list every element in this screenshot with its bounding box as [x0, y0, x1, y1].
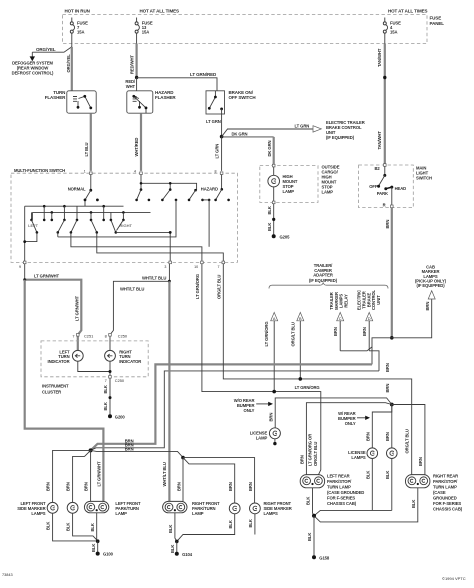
svg-text:LT GRN/ORG: LT GRN/ORG — [295, 385, 320, 390]
svg-text:BRN: BRN — [385, 363, 390, 372]
svg-text:OFF SWITCH: OFF SWITCH — [229, 95, 256, 100]
wire BRN to cab marker lamps — [392, 299, 432, 338]
wire ORG/LT BLU connector B down — [290, 321, 300, 379]
svg-text:ORG/LT BLU: ORG/LT BLU — [290, 322, 295, 346]
note CAB MARKER LAMPS — [415, 265, 447, 288]
svg-text:LAMPS: LAMPS — [351, 455, 365, 460]
instrument cluster box — [41, 341, 148, 377]
svg-text:WHT: WHT — [126, 84, 136, 89]
left front park/turn lamp — [84, 501, 108, 512]
svg-text:7: 7 — [72, 333, 74, 338]
label BRAKE ON/ OFF SWITCH — [229, 90, 256, 100]
note TRAILER/CAMPER ADAPTER — [309, 263, 338, 283]
svg-text:RIGHT: RIGHT — [120, 223, 133, 228]
ground G104 — [175, 552, 193, 557]
svg-text:15A: 15A — [77, 30, 84, 35]
svg-text:BRN: BRN — [248, 482, 253, 491]
svg-text:FLASHER: FLASHER — [155, 95, 176, 100]
svg-text:CHASSIS CAB): CHASSIS CAB) — [433, 507, 463, 512]
svg-text:GROUNDED: GROUNDED — [433, 496, 457, 501]
high mount stop lamp box — [260, 166, 318, 203]
svg-text:15A: 15A — [142, 30, 149, 35]
label LICENSE LAMPS — [348, 450, 366, 460]
wire BLK to G158 — [307, 516, 314, 557]
right front side marker lamp 2 — [250, 503, 261, 514]
wire LT GRN brake switch down — [221, 114, 223, 137]
label MAIN LIGHT SWITCH — [416, 166, 432, 181]
label HIGH MOUNT STOP LAMP — [283, 174, 298, 194]
right turn indicator — [105, 350, 116, 361]
wire BRN to left rear park — [300, 403, 392, 475]
wire BRN to license lamp w/o rear bumper — [268, 398, 391, 428]
note OUTSIDE CARGO/HIGH MOUNT STOP LAMP — [322, 164, 340, 194]
svg-text:HOT IN RUN: HOT IN RUN — [65, 8, 90, 13]
wire BLK right markers ground — [177, 514, 255, 542]
svg-text:(IF EQUIPPED): (IF EQUIPPED) — [309, 278, 338, 283]
svg-text:BLK: BLK — [170, 545, 175, 553]
label ELECTRIC TRAILER BRAKE CONTROL UNIT (vertical) — [357, 289, 381, 310]
svg-text:HOT AT ALL TIMES: HOT AT ALL TIMES — [140, 8, 179, 13]
svg-text:BRN: BRN — [66, 482, 71, 491]
wire BRN to right park/turn lamp — [176, 458, 183, 502]
license lamp w/o bumper — [269, 428, 280, 439]
MFS internal routing wires — [23, 200, 223, 263]
svg-text:(CASE: (CASE — [433, 490, 446, 495]
MFS pin 4 — [134, 170, 142, 175]
svg-text:ORG/LT BLU: ORG/LT BLU — [313, 442, 318, 466]
MFS pin 7 — [218, 261, 225, 269]
svg-text:RED/WHT: RED/WHT — [130, 55, 135, 74]
svg-text:G104: G104 — [182, 552, 193, 557]
fuse F7 15A — [70, 18, 88, 35]
junction on TAN/WHT — [383, 76, 386, 79]
svg-text:LT BLU: LT BLU — [84, 142, 89, 156]
label LEFT TURN INDICATOR — [48, 350, 71, 364]
left front side marker lamp 2 — [67, 502, 78, 513]
ground G100 — [96, 552, 114, 557]
svg-text:10: 10 — [194, 265, 198, 269]
svg-text:B2: B2 — [375, 166, 381, 171]
license lamp B w/ bumper — [387, 448, 398, 459]
svg-text:LT GRN/WHT: LT GRN/WHT — [97, 461, 102, 487]
svg-text:LEFT REAR: LEFT REAR — [327, 474, 350, 479]
left front side marker lamp 1 — [47, 502, 58, 513]
connector arrow electric trailer brake — [313, 126, 321, 132]
svg-text:8: 8 — [215, 170, 217, 174]
svg-text:DK GRN: DK GRN — [232, 131, 248, 136]
label RED/ WHT — [125, 79, 136, 89]
svg-text:TAN/WHT: TAN/WHT — [377, 131, 382, 150]
wire WHT/LT BLU pin 3 branch to cluster — [110, 264, 169, 351]
svg-text:BRN: BRN — [333, 327, 338, 336]
svg-text:HEAD: HEAD — [395, 186, 407, 191]
svg-text:BLK: BLK — [103, 402, 108, 410]
label RIGHT FRONT PARK/TURN LAMP — [192, 501, 220, 516]
svg-text:BRN: BRN — [125, 447, 134, 452]
wire ORG/YEL fuse7 to turn flasher — [66, 33, 72, 91]
svg-text:HAZARD: HAZARD — [201, 186, 218, 191]
wire BLK left marker 1 ground — [46, 513, 98, 541]
wire ORG/YEL branch to defogger — [30, 47, 72, 61]
svg-text:LAMP: LAMP — [192, 511, 204, 516]
svg-text:WHT/LT BLU: WHT/LT BLU — [120, 287, 144, 292]
svg-text:LAMP: LAMP — [283, 189, 295, 194]
label LEFT REAR PARK/STOP/TURN LAMP — [327, 474, 364, 507]
wire LT GRN/ORG connector A down — [264, 321, 274, 392]
svg-text:BRN: BRN — [84, 482, 89, 491]
junction BRN right front — [181, 456, 185, 460]
svg-text:LAMP: LAMP — [322, 189, 334, 194]
junction trailer B tap — [299, 377, 303, 381]
label TRAILER MARKER LAMPS RELAY (vertical) — [329, 292, 348, 310]
pin 8 connector C250 — [105, 333, 128, 338]
license lamp A w/ bumper — [367, 448, 378, 459]
svg-text:7: 7 — [218, 265, 220, 269]
ground G200 — [108, 414, 125, 419]
label LICENSE LAMP — [250, 431, 268, 441]
pin R bottom of light switch — [383, 202, 394, 207]
svg-text:(IF EQUIPPED): (IF EQUIPPED) — [326, 135, 355, 140]
svg-text:PARK/STOP/: PARK/STOP/ — [327, 479, 352, 484]
connector triangle C — [337, 312, 344, 321]
svg-text:LAMPS: LAMPS — [264, 511, 278, 516]
svg-text:BLK: BLK — [66, 523, 71, 531]
svg-text:PANEL: PANEL — [430, 21, 445, 26]
defogger system note — [12, 61, 54, 76]
label LEFT FRONT PARK/TURN LAMP — [115, 501, 141, 516]
label RIGHT TURN INDICATOR — [119, 350, 141, 364]
svg-text:BLK: BLK — [306, 497, 311, 505]
label INSTRUMENT CLUSTER — [42, 383, 69, 394]
pin B2 — [375, 164, 387, 172]
svg-text:DK GRN: DK GRN — [267, 141, 272, 157]
svg-text:A: A — [273, 316, 276, 321]
brake on/off switch — [206, 91, 225, 114]
svg-text:TAN/WHT: TAN/WHT — [377, 48, 382, 67]
svg-text:LT GRN/ORG: LT GRN/ORG — [264, 322, 269, 347]
svg-text:LAMP: LAMP — [256, 436, 268, 441]
wire hazard flasher feed — [136, 78, 138, 91]
svg-text:4: 4 — [134, 170, 136, 174]
svg-text:G200: G200 — [115, 414, 126, 419]
left turn indicator — [72, 350, 83, 361]
wire WHT/RED hazard flasher to MFS pin 4 — [134, 113, 141, 171]
wire BRN main light switch down — [385, 208, 392, 338]
ground G205 — [272, 234, 290, 239]
svg-text:C251: C251 — [84, 333, 93, 338]
wire BRN to left park/turn lamp — [84, 450, 91, 501]
note W/ REAR BUMPER ONLY — [338, 411, 356, 426]
svg-text:9: 9 — [19, 265, 21, 269]
wire LT BLU turn flasher to MFS pin 1 — [84, 113, 91, 171]
svg-text:BRN: BRN — [418, 457, 423, 466]
wire BRN connector C down — [333, 321, 340, 351]
svg-text:BRN: BRN — [385, 384, 390, 393]
svg-text:BRN: BRN — [46, 482, 51, 491]
svg-text:LT GRN/ORG: LT GRN/ORG — [195, 274, 200, 299]
svg-text:BLK: BLK — [385, 471, 390, 479]
note W/O REAR BUMPER ONLY — [234, 398, 255, 413]
svg-text:WHT/LT BLU: WHT/LT BLU — [142, 276, 166, 281]
left rear park/stop/turn lamp — [300, 475, 324, 488]
svg-text:73843: 73843 — [2, 573, 13, 577]
fuse F4 15A — [383, 18, 401, 35]
junction BLK rear ground — [312, 514, 316, 518]
svg-text:G158: G158 — [319, 555, 330, 560]
svg-text:7: 7 — [105, 378, 107, 383]
wire BRN to license lamp B w/ bumper — [385, 405, 392, 448]
svg-text:LT GRN: LT GRN — [295, 123, 310, 128]
wire LT GRN down to MFS pin 8 — [215, 137, 222, 171]
wire TAN/WHT fuse 4 to main light switch — [377, 33, 385, 165]
pin bottom of stop lamp box — [272, 201, 275, 204]
fuse F13 15A — [135, 18, 153, 35]
junction BRN rear distribution — [390, 403, 394, 407]
svg-text:PARK: PARK — [377, 191, 388, 196]
svg-text:ONLY: ONLY — [345, 421, 356, 426]
junction pin3 — [168, 280, 171, 283]
main light switch contacts OFF PARK HEAD — [369, 166, 406, 207]
MFS pin 10 — [194, 261, 203, 269]
svg-text:RIGHT REAR: RIGHT REAR — [433, 474, 458, 479]
svg-text:D: D — [368, 316, 371, 321]
MFS pin 3 — [164, 261, 171, 269]
svg-text:BLK: BLK — [103, 385, 108, 393]
svg-text:LT GRN/WHT: LT GRN/WHT — [75, 295, 80, 321]
connector triangle A — [271, 312, 278, 321]
MFS normal switch — [68, 175, 99, 207]
svg-text:1: 1 — [84, 170, 86, 174]
svg-text:BRN: BRN — [362, 327, 367, 336]
wire RED/WHT from fuse 13 — [130, 33, 137, 77]
svg-text:3: 3 — [164, 265, 166, 269]
svg-text:FOR F-SERIES: FOR F-SERIES — [327, 496, 355, 501]
note electric trailer brake control unit — [326, 120, 365, 140]
svg-text:BRN: BRN — [385, 220, 390, 229]
wire DK GRN to high mount stop lamp — [222, 131, 274, 165]
svg-text:RELAY: RELAY — [343, 294, 348, 308]
svg-text:BRN: BRN — [385, 432, 390, 441]
arrow w/o rear bumper — [256, 402, 273, 406]
svg-text:C250: C250 — [115, 378, 125, 383]
svg-text:PARK/STOP/: PARK/STOP/ — [433, 479, 458, 484]
svg-text:LAMP: LAMP — [115, 511, 127, 516]
wire BLK to G100 — [91, 541, 98, 553]
svg-text:BLK: BLK — [307, 533, 312, 541]
wire BLK left rear ground — [306, 488, 314, 516]
svg-text:LAMPS: LAMPS — [31, 511, 45, 516]
svg-text:FOR F-SERIES: FOR F-SERIES — [433, 501, 461, 506]
svg-text:R: R — [383, 202, 386, 207]
svg-text:INDICATOR: INDICATOR — [119, 359, 141, 364]
turn flasher — [67, 91, 96, 113]
svg-text:G205: G205 — [280, 234, 291, 239]
svg-text:(IF EQUIPPED): (IF EQUIPPED) — [416, 283, 445, 288]
svg-text:LT GRN/RED: LT GRN/RED — [190, 72, 217, 77]
svg-text:ORG/LT BLU: ORG/LT BLU — [405, 429, 410, 453]
pin 7 connector C250 bottom — [105, 376, 125, 384]
wire BRN connector D down — [362, 321, 369, 351]
label TURN FLASHER — [45, 90, 66, 100]
svg-text:BRN: BRN — [268, 413, 273, 422]
svg-text:BLK: BLK — [248, 519, 253, 527]
svg-text:©1994 VPTC: ©1994 VPTC — [442, 576, 466, 581]
wire BLK to G104 — [170, 541, 177, 553]
svg-text:HOT AT ALL TIMES: HOT AT ALL TIMES — [388, 8, 427, 13]
arrow w/ rear bumper — [357, 416, 370, 420]
svg-text:G100: G100 — [103, 552, 114, 557]
svg-text:BLK: BLK — [46, 522, 51, 530]
svg-text:TURN LAMP: TURN LAMP — [327, 485, 351, 490]
svg-text:ONLY: ONLY — [244, 408, 255, 413]
MFS hazard switch contacts — [135, 175, 230, 202]
wire LT GRN to electric trailer brake arrow — [222, 123, 313, 136]
junction BLK left ground — [96, 539, 100, 543]
svg-text:BLK: BLK — [91, 544, 96, 552]
svg-text:INDICATOR: INDICATOR — [48, 359, 70, 364]
svg-text:BLK: BLK — [90, 523, 95, 531]
MFS pin 9 — [19, 261, 26, 269]
svg-text:BLK: BLK — [267, 206, 272, 214]
ground G158 — [312, 555, 330, 560]
MFS internal bus wires — [25, 205, 151, 219]
svg-text:BRN: BRN — [176, 482, 181, 491]
wire BRN to license lamp A w/ bumper — [366, 405, 392, 448]
MFS pin 8 — [215, 170, 223, 175]
right front side marker lamp 1 — [229, 503, 240, 514]
junction RED/WHT — [135, 76, 138, 79]
svg-text:CLUSTER: CLUSTER — [42, 389, 61, 394]
svg-text:BLK: BLK — [411, 500, 416, 508]
brace over trailer adapter connectors — [269, 282, 388, 288]
connector triangle D — [366, 312, 373, 321]
svg-text:DEFROST CONTROL): DEFROST CONTROL) — [12, 71, 54, 76]
MFS left/right switch contacts — [28, 206, 132, 234]
wire BLK license lamps ground — [314, 459, 392, 516]
wire BRN park feed bus (thick) to front — [91, 364, 372, 450]
wire BRN to left side marker 1 — [46, 450, 91, 502]
svg-text:BLK: BLK — [267, 223, 272, 231]
wire cluster indicators common — [78, 361, 112, 377]
svg-text:15A: 15A — [390, 30, 397, 35]
svg-text:ORG/YEL: ORG/YEL — [36, 47, 56, 52]
wire WHT/LT BLU pin 3 to right front (thick) — [162, 281, 169, 501]
junction trailer A tap — [272, 390, 276, 394]
wire BLK cluster to ground — [103, 378, 112, 416]
wire BLK right rear ground — [314, 488, 418, 522]
wire BRN to left side marker 2 — [66, 450, 91, 502]
svg-text:NORMAL: NORMAL — [68, 186, 86, 191]
svg-text:INSTRUMENT: INSTRUMENT — [42, 383, 69, 388]
pin 7 connector C251 — [72, 333, 93, 338]
wire BRN jog from main to marker bus — [340, 338, 392, 393]
right front park/turn lamp — [163, 501, 187, 512]
svg-text:UNIT: UNIT — [376, 295, 381, 305]
main light switch box — [359, 165, 414, 208]
junction BLK right ground — [175, 540, 179, 544]
multi-function switch box — [11, 173, 237, 262]
svg-text:BRN: BRN — [425, 302, 430, 311]
svg-text:BRN: BRN — [366, 432, 371, 441]
wire BLK stop lamp to ground — [267, 204, 275, 236]
svg-text:LT GRN: LT GRN — [206, 119, 221, 124]
svg-text:SWITCH: SWITCH — [416, 176, 432, 181]
svg-text:C250: C250 — [118, 333, 128, 338]
pin top of stop lamp box — [272, 164, 275, 167]
svg-text:BLK: BLK — [228, 520, 233, 528]
svg-text:LT GRN/WHT: LT GRN/WHT — [34, 274, 60, 279]
svg-text:BRN: BRN — [300, 455, 305, 464]
wire BRN second feed to front — [91, 371, 379, 451]
label RIGHT FRONT SIDE MARKER LAMPS — [264, 501, 292, 516]
svg-text:B: B — [299, 316, 302, 321]
svg-text:BLK: BLK — [366, 471, 371, 479]
wire BRN to right side markers — [183, 458, 255, 504]
wire BLK right park/turn ground — [168, 513, 177, 542]
wire ORG/LT BLU pin 7 to rear — [216, 264, 411, 475]
svg-text:BRN: BRN — [228, 482, 233, 491]
svg-text:OFF: OFF — [369, 184, 378, 189]
wire BRN to right rear park — [392, 405, 425, 475]
junction BRN cab marker — [390, 336, 394, 340]
wire BLK left marker 2 ground — [66, 513, 98, 541]
wire BLK left park/turn ground — [90, 513, 97, 541]
svg-text:LT GRN: LT GRN — [215, 144, 220, 159]
wire LT GRN/WHT pin 9 branch — [23, 264, 81, 351]
wire BRN distribution to right front — [91, 450, 183, 457]
MFS pin 1 — [84, 170, 92, 175]
svg-text:BLK: BLK — [168, 525, 173, 533]
wire LT GRN/RED to brake on/off switch — [137, 72, 217, 91]
svg-text:ORG/LT BLU: ORG/LT BLU — [216, 275, 221, 299]
label FUSE PANEL — [430, 16, 445, 26]
svg-text:(CASE GROUNDED: (CASE GROUNDED — [327, 490, 364, 495]
label LEFT FRONT SIDE MARKER LAMPS — [17, 501, 46, 516]
svg-text:MULTI-FUNCTION SWITCH: MULTI-FUNCTION SWITCH — [14, 168, 65, 173]
svg-text:CHASSIS CAB): CHASSIS CAB) — [327, 501, 357, 506]
wire LT GRN/WHT pin 9 to left front — [25, 280, 104, 502]
connector triangle B — [297, 312, 304, 321]
fuse panel box — [63, 15, 428, 44]
svg-text:LEFT: LEFT — [28, 223, 38, 228]
hazard flasher — [127, 91, 153, 113]
label RIGHT REAR PARK/STOP/TURN LAMP — [433, 474, 463, 512]
junction LT GRN / DK GRN — [220, 135, 224, 139]
svg-text:TURN LAMP: TURN LAMP — [433, 485, 457, 490]
svg-text:WHT/RED: WHT/RED — [134, 138, 139, 157]
svg-text:C: C — [339, 316, 342, 321]
label HAZARD FLASHER — [155, 90, 176, 100]
high mount stop lamp — [268, 167, 280, 203]
svg-text:ORG/YEL: ORG/YEL — [66, 54, 71, 73]
connector arrow cab marker lamps — [428, 291, 435, 299]
junction BRN front lamps — [89, 448, 93, 452]
label BRN x3 at front feeds — [125, 439, 134, 452]
wire LT GRN/ORG pin 10 to rear — [195, 264, 321, 475]
svg-text:WHT/LT BLU: WHT/LT BLU — [162, 462, 167, 486]
svg-text:FLASHER: FLASHER — [45, 95, 66, 100]
right rear park/stop/turn lamp — [406, 475, 430, 488]
ground license lamp w/o bumper — [273, 439, 276, 446]
svg-text:8: 8 — [105, 333, 107, 338]
